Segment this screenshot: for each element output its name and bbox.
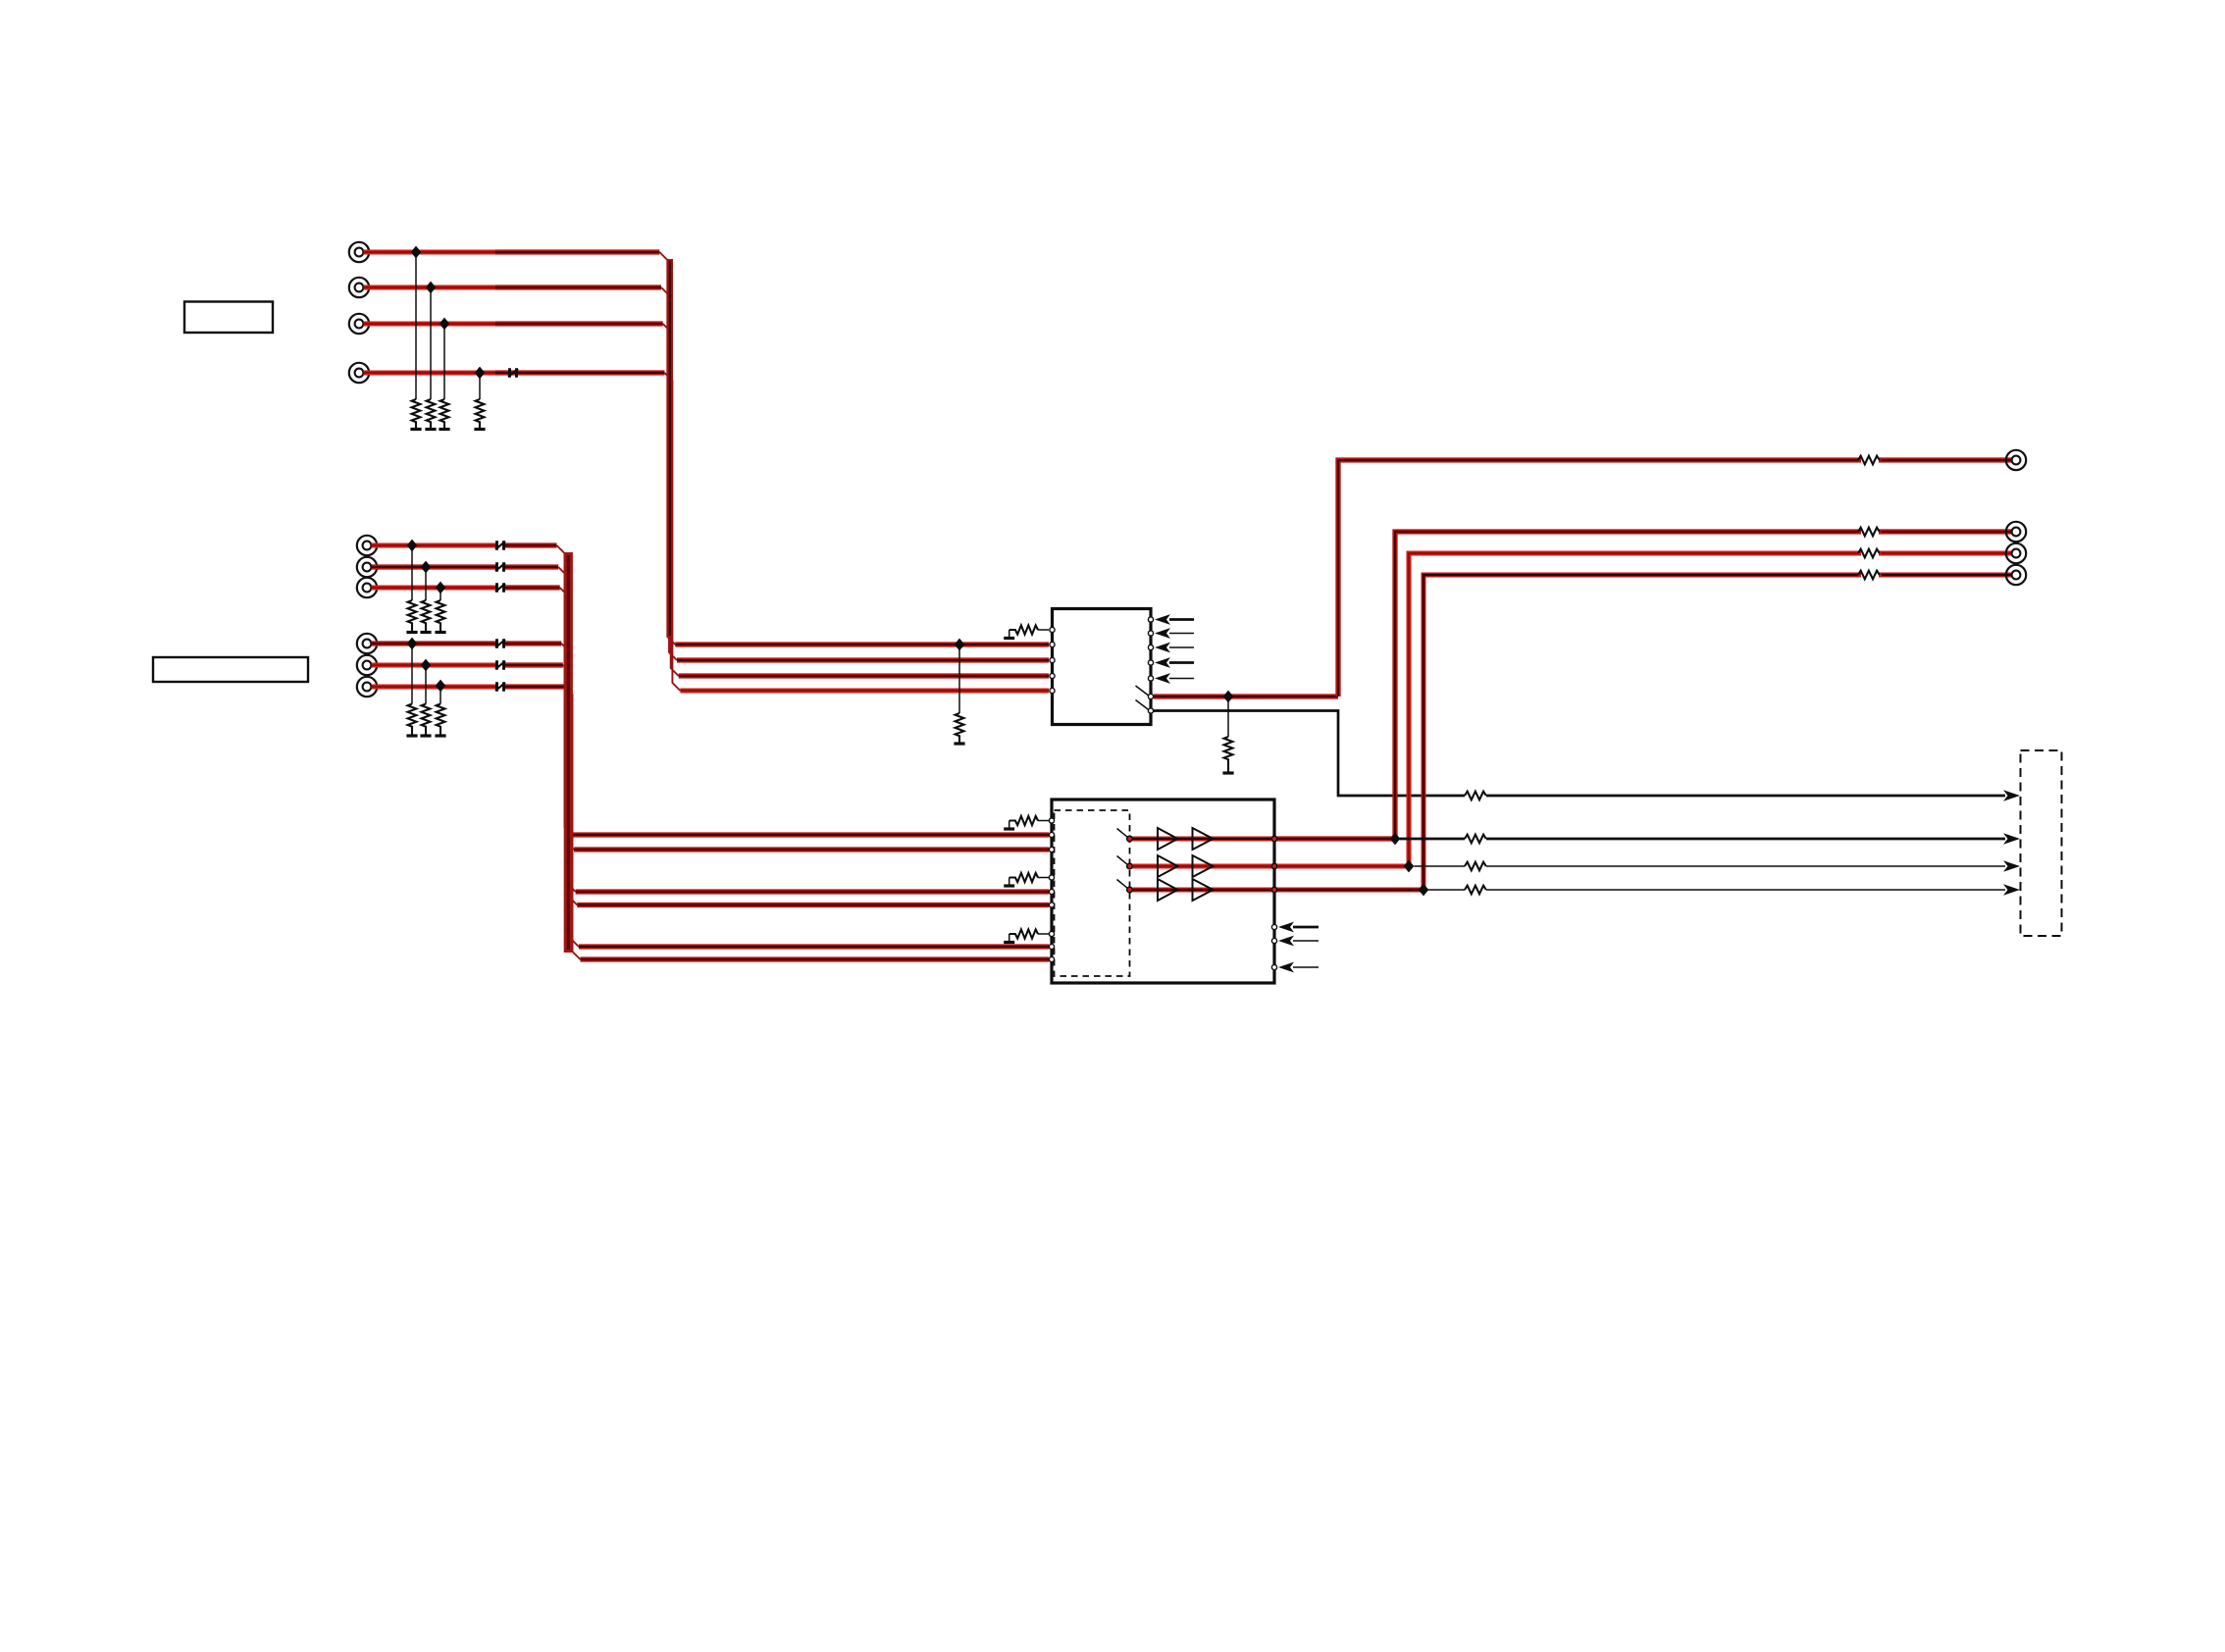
ground for R204 bbox=[406, 734, 417, 737]
jack J201 pin 1 bbox=[357, 536, 377, 555]
wire video out riser to output run bbox=[1338, 460, 2012, 697]
resistor R408 in branch 3 bbox=[1465, 886, 1486, 895]
ground for R202 bbox=[420, 631, 431, 634]
jack J101 pin 3 bbox=[349, 314, 369, 334]
IC2 pin 8 bbox=[1049, 944, 1054, 949]
wire junction V4 to R104 bbox=[479, 373, 481, 399]
IC2 pin 9 bbox=[1049, 956, 1054, 961]
ferrite bead FB201 on net A1 bbox=[495, 541, 505, 550]
junction node on A3 bbox=[436, 582, 446, 594]
IC2 pin 7 bbox=[1049, 931, 1054, 936]
switch lever for IC1 pin 12 bbox=[1136, 700, 1150, 711]
arrow into dashed connector pin 1 bbox=[2003, 790, 2020, 801]
junction node on A2 bbox=[421, 561, 432, 574]
IC1 pin 2 bbox=[1050, 642, 1055, 646]
junction node out 3 bbox=[1419, 884, 1429, 897]
buffer amp A2a bbox=[1158, 855, 1178, 877]
wire net A1 from J201-1 to IC2 pin 2 bbox=[372, 545, 1050, 835]
IC2 buffer/switch body bbox=[1052, 800, 1274, 983]
control arrow into IC1 pin 8 bbox=[1155, 643, 1194, 653]
label box 1 (empty) bbox=[184, 302, 273, 334]
junction node on B1 bbox=[407, 638, 418, 650]
output jack J404 bbox=[2006, 565, 2026, 585]
ferrite bead FB104 on net V4 bbox=[508, 368, 518, 378]
resistor R303 bbox=[1224, 737, 1233, 772]
IC2 output pin 11 bbox=[1271, 863, 1277, 869]
jack J202 pin 2 bbox=[357, 655, 377, 675]
junction node out 2 bbox=[1404, 860, 1415, 873]
control arrow into IC2 pin 15 bbox=[1278, 962, 1319, 973]
wire out 3 branch to dashed connector bbox=[1428, 889, 1465, 891]
IC1 pin 1 bbox=[1050, 627, 1055, 632]
junction node on B3 bbox=[436, 680, 446, 693]
wire junction A1 to R201 bbox=[411, 545, 413, 600]
junction node on V2 bbox=[426, 282, 437, 294]
IC2 control pin 13 bbox=[1271, 924, 1276, 929]
IC2 pin 1 bbox=[1049, 818, 1054, 823]
wire out 2 branch to dashed connector bbox=[1414, 865, 1465, 867]
ferrite bead FB206 on net B3 bbox=[495, 682, 505, 692]
junction node on A1 bbox=[407, 540, 418, 552]
SECTION: IC1 bbox=[954, 456, 2020, 801]
wire riser out 2 to jack Y bbox=[1409, 553, 2012, 866]
ground for R102 bbox=[425, 428, 436, 431]
internal wire mux2 through buffers bbox=[1133, 864, 1272, 869]
control arrow into IC1 pin 9 bbox=[1155, 657, 1194, 668]
wire IC2 out 2 to riser bbox=[1277, 864, 1409, 869]
control arrow into IC2 pin 13 bbox=[1278, 922, 1319, 933]
IC1 right pin 8 bbox=[1148, 645, 1153, 649]
junction node on V4 bbox=[475, 367, 486, 380]
junction node out 1 bbox=[1390, 833, 1401, 846]
IC1 pin 4 bbox=[1050, 673, 1055, 678]
IC2 pin 4 bbox=[1049, 875, 1054, 880]
ground for R206 bbox=[435, 734, 445, 737]
ground for R303 bbox=[1222, 771, 1233, 774]
arrow into dashed connector pin 2 bbox=[2003, 833, 2020, 845]
resistor R102 bbox=[427, 399, 436, 428]
bus overlay for top-left bundle bbox=[667, 259, 673, 638]
wire junction B3 to R206 bbox=[440, 687, 441, 704]
ferrite bead FB203 on net A3 bbox=[495, 583, 505, 593]
IC2 control pin 15 bbox=[1271, 964, 1276, 969]
arrow into dashed connector pin 3 bbox=[2003, 860, 2020, 872]
wire IC2 out 3 to riser bbox=[1277, 888, 1423, 893]
IC1 right pin 7 bbox=[1148, 631, 1153, 636]
output jack J402 bbox=[2006, 522, 2026, 542]
resistor R406 in branch 1 bbox=[1465, 835, 1486, 844]
wire IC1 sync out to dashed connector bbox=[1154, 711, 1465, 797]
buffer amp A3a bbox=[1158, 879, 1178, 901]
logic-level step symbol for R501 bbox=[1004, 827, 1014, 830]
IC1 right pin 9 bbox=[1148, 660, 1153, 665]
IC2 output pin 10 bbox=[1271, 836, 1277, 842]
wire IC2 out 1 to riser bbox=[1277, 836, 1395, 841]
switch lever for mux out 1 bbox=[1117, 829, 1129, 839]
SECTION: right outputs bbox=[1277, 450, 2062, 936]
IC2 pin 5 bbox=[1049, 889, 1054, 894]
IC1 pin 12 (sync out) bbox=[1148, 708, 1153, 713]
resistor R104 bbox=[476, 399, 485, 428]
wire net V3 from J101-3 to IC1 pin 4 bbox=[364, 324, 1050, 676]
wire net B1 from J202-1 to IC2 pin 6 bbox=[372, 644, 1050, 905]
resistor R203 bbox=[437, 600, 445, 631]
jack J201 pin 2 bbox=[357, 557, 377, 577]
resistor R407 in branch 2 bbox=[1465, 862, 1486, 871]
resistor R204 bbox=[408, 704, 417, 735]
IC1 pin 3 bbox=[1050, 657, 1055, 662]
wire junction B1 to R204 bbox=[411, 644, 413, 704]
IC1 pin 11 (video out) bbox=[1148, 694, 1153, 698]
ground for R302 bbox=[954, 742, 964, 745]
resistor R404 in out 2 line bbox=[1858, 549, 1880, 558]
resistor R205 bbox=[422, 704, 431, 735]
ground for R203 bbox=[435, 631, 445, 634]
wire junction B2 to R205 bbox=[425, 665, 427, 704]
IC1 right pin 6 bbox=[1148, 617, 1153, 622]
control arrow into IC2 pin 14 bbox=[1278, 936, 1319, 947]
label box 2 (empty) bbox=[153, 657, 308, 682]
switch lever for mux out 2 bbox=[1117, 856, 1129, 866]
ground for R103 bbox=[439, 428, 449, 431]
resistor R202 bbox=[422, 600, 431, 631]
output jack J403 bbox=[2006, 543, 2026, 563]
jack J101 pin 2 bbox=[349, 278, 369, 297]
resistor R503 (pull on IC2 pin 7) bbox=[1009, 929, 1049, 941]
junction node on V1 bbox=[411, 246, 422, 259]
junction node on V1 at R302 bbox=[955, 639, 965, 651]
junction node on video out bbox=[1223, 691, 1234, 703]
resistor R101 bbox=[412, 399, 421, 428]
buffer amp A2b bbox=[1193, 855, 1214, 877]
junction node on V3 bbox=[440, 318, 450, 331]
wire IC1 video out to vertical riser bbox=[1154, 694, 1338, 698]
IC2 inner dashed switch block bbox=[1055, 810, 1130, 976]
wire riser out 3 to jack C bbox=[1423, 575, 2012, 890]
IC1 switch body bbox=[1053, 609, 1152, 725]
jack J201 pin 3 bbox=[357, 578, 377, 597]
logic-level step symbol for R301 bbox=[1004, 637, 1014, 640]
wire net A3 from J201-3 to IC2 pin 5 bbox=[372, 588, 1050, 892]
bus overlay for mid bundle bbox=[564, 552, 573, 953]
jack J101 pin 1 bbox=[349, 242, 369, 262]
resistor R402 in sync line bbox=[1465, 792, 1486, 800]
jack J202 pin 1 bbox=[357, 634, 377, 653]
junction node on B2 bbox=[421, 659, 432, 672]
resistor R103 bbox=[440, 399, 449, 428]
switch lever for mux out 3 bbox=[1117, 880, 1129, 890]
logic-level step symbol for R503 bbox=[1004, 941, 1014, 944]
wire junction A3 to R203 bbox=[440, 588, 441, 600]
wire junction V1 to R302 bbox=[958, 645, 960, 713]
IC2 output pin 12 bbox=[1271, 887, 1277, 893]
output jack J401 bbox=[2006, 450, 2026, 470]
ferrite bead FB205 on net B2 bbox=[495, 660, 505, 670]
ground for R201 bbox=[406, 631, 417, 634]
dashed connector CN401 bbox=[2021, 750, 2062, 936]
mux out node 1 bbox=[1127, 836, 1133, 842]
control arrow into IC1 pin 10 bbox=[1155, 673, 1194, 684]
wire junction V1 to R101 bbox=[415, 252, 417, 399]
wire net V1 from J101-1 to IC1 pin 2 bbox=[364, 252, 1050, 645]
IC1 right pin 10 bbox=[1148, 676, 1153, 681]
ground for R101 bbox=[410, 428, 421, 431]
jack J101 pin 4 bbox=[349, 363, 369, 383]
SECTION: IC2 bbox=[1004, 800, 1319, 983]
buffer amp A3b bbox=[1193, 879, 1214, 901]
ground for R104 bbox=[474, 428, 485, 431]
IC2 pin 6 bbox=[1049, 903, 1054, 907]
ferrite bead FB202 on net A2 bbox=[495, 562, 505, 572]
arrow into dashed connector pin 4 bbox=[2003, 884, 2020, 896]
mux out node 3 bbox=[1127, 887, 1133, 893]
resistor R501 (pull on IC2 pin 1) bbox=[1009, 816, 1049, 828]
resistor R301 (pull on IC1 pin 1) bbox=[1009, 625, 1049, 637]
resistor R201 bbox=[408, 600, 417, 631]
buffer amp A1a bbox=[1158, 828, 1178, 850]
resistor R401 in video out line bbox=[1858, 456, 1880, 465]
logic-level step symbol for R502 bbox=[1004, 884, 1014, 887]
SECTION: mid-left jack group bbox=[357, 536, 1049, 959]
mux out node 2 bbox=[1127, 863, 1133, 869]
IC2 control pin 14 bbox=[1271, 938, 1276, 943]
IC1 pin 5 bbox=[1050, 688, 1055, 693]
jack J202 pin 3 bbox=[357, 677, 377, 697]
wire junction V3 to R103 bbox=[443, 324, 445, 399]
wire net V4 from J101-4 to IC1 pin 5 bbox=[364, 373, 1050, 691]
wire net B2 from J202-2 to IC2 pin 8 bbox=[372, 665, 1050, 947]
switch lever for IC1 pin 11 bbox=[1136, 686, 1150, 697]
buffer amp A1b bbox=[1193, 828, 1214, 850]
wire junction video out to R303 bbox=[1227, 697, 1229, 737]
ground for R205 bbox=[420, 734, 431, 737]
IC2 pin 2 bbox=[1049, 832, 1054, 837]
internal wire mux3 through buffers bbox=[1133, 888, 1272, 893]
resistor R206 bbox=[437, 704, 445, 735]
control arrow into IC1 pin 7 bbox=[1155, 628, 1194, 639]
wire out 1 branch to dashed connector bbox=[1400, 838, 1465, 841]
resistor R405 in out 3 line bbox=[1858, 571, 1880, 580]
wire net V2 from J101-2 to IC1 pin 3 bbox=[364, 287, 1050, 660]
control arrow into IC1 pin 6 bbox=[1155, 614, 1194, 625]
ferrite bead FB204 on net B1 bbox=[495, 639, 505, 648]
resistor R403 in out 1 line bbox=[1858, 528, 1880, 537]
IC2 pin 3 bbox=[1049, 847, 1054, 852]
internal wire mux1 through buffers bbox=[1133, 837, 1272, 842]
resistor R502 (pull on IC2 pin 4) bbox=[1009, 873, 1049, 885]
wire junction V2 to R102 bbox=[430, 287, 432, 399]
wire net A2 from J201-2 to IC2 pin 3 bbox=[372, 567, 1050, 850]
wire junction A2 to R202 bbox=[425, 567, 427, 600]
wire riser out 1 to jack CV bbox=[1395, 532, 2012, 839]
wire net B3 from J202-3 to IC2 pin 9 bbox=[372, 687, 1050, 959]
SECTION: top-left jack group bbox=[349, 242, 1049, 691]
resistor R302 bbox=[956, 713, 964, 743]
